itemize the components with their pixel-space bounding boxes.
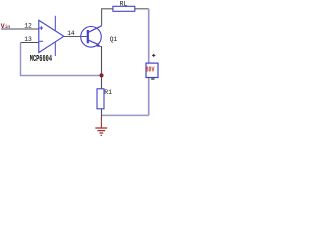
svg-text:in: in xyxy=(5,25,11,30)
svg-text:RL: RL xyxy=(120,1,128,8)
svg-text:Q1: Q1 xyxy=(110,36,118,43)
svg-text:13: 13 xyxy=(24,36,32,43)
svg-text:14: 14 xyxy=(67,30,75,37)
svg-text:12: 12 xyxy=(24,23,32,30)
svg-text:80V: 80V xyxy=(146,66,155,74)
svg-text:MCP6004: MCP6004 xyxy=(30,54,53,64)
svg-text:R1: R1 xyxy=(104,89,112,96)
